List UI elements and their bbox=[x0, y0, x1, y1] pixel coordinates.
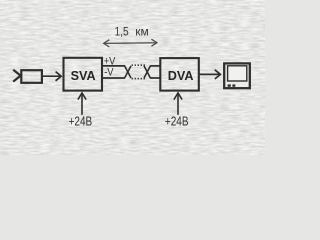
svg-text:SVA: SVA bbox=[71, 68, 97, 83]
svg-text:DVA: DVA bbox=[168, 68, 194, 83]
dimension arrow 1,5 km bbox=[104, 39, 157, 47]
wire DVA to monitor bbox=[200, 70, 221, 79]
camera body bbox=[21, 70, 42, 83]
wire +V to DVA bbox=[150, 65, 160, 67]
cable twist left bbox=[125, 66, 131, 78]
camera lens bbox=[13, 70, 20, 82]
power arrow into SVA bbox=[78, 93, 86, 115]
svg-text:+24В: +24В bbox=[69, 116, 93, 129]
wire -V to DVA bbox=[150, 77, 160, 79]
svg-text:1,5: 1,5 bbox=[115, 26, 129, 39]
svg-text:км: км bbox=[135, 25, 149, 39]
wire camera to SVA bbox=[42, 72, 61, 81]
wire -V from SVA bbox=[103, 77, 125, 79]
svg-text:-V: -V bbox=[104, 67, 114, 79]
monitor bbox=[224, 63, 250, 88]
wire +V from SVA bbox=[103, 65, 125, 67]
block DVA bbox=[160, 58, 199, 91]
cable dotted break bbox=[132, 65, 145, 78]
power arrow into DVA bbox=[174, 93, 182, 115]
cable twist right bbox=[144, 66, 150, 78]
svg-text:+24В: +24В bbox=[165, 116, 189, 129]
block SVA bbox=[64, 58, 103, 91]
